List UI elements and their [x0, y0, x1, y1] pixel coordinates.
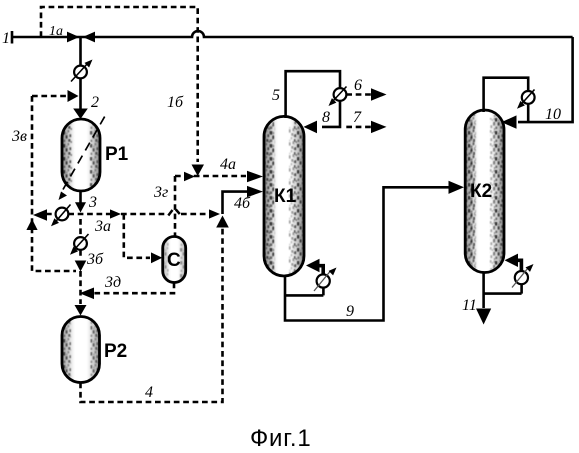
svg-text:4б: 4б: [234, 195, 251, 212]
arrow line 2 into P1: [73, 109, 88, 120]
svg-text:К2: К2: [470, 181, 492, 202]
arrow 4 up into 4б corner: [216, 216, 229, 228]
wire: 3в dashed vertical and corners: [32, 96, 76, 271]
arrow 3б down: [75, 261, 87, 272]
arrow reboiler return into K2: [505, 254, 519, 267]
svg-text:К1: К1: [274, 186, 297, 207]
heat exchanger E4 (condenser K1): [334, 88, 347, 101]
wire: 4б solid into K1: [223, 192, 248, 214]
wire: branch 1б dashed (up, across top, down to 4a junction): [41, 7, 198, 162]
svg-text:3а: 3а: [94, 218, 111, 235]
svg-text:3: 3: [88, 194, 97, 211]
svg-text:5: 5: [272, 87, 280, 104]
svg-text:2: 2: [91, 94, 99, 111]
svg-text:4а: 4а: [220, 156, 236, 173]
arrow 4a into K1: [247, 171, 263, 182]
small arrow on reboiler slash: [314, 272, 330, 292]
arrow down into P2: [75, 305, 87, 316]
svg-text:3г: 3г: [153, 184, 168, 201]
svg-text:7: 7: [353, 109, 362, 126]
svg-text:3б: 3б: [86, 251, 104, 268]
small arrow on K2 reboiler slash: [512, 268, 528, 288]
heat exchanger E1 on line 2: [74, 66, 87, 79]
wire: branch 3a to separator C: [124, 214, 150, 258]
arrow 3г/4a right before junction: [184, 172, 195, 181]
arrow 9 into K2: [449, 181, 465, 194]
svg-text:1: 1: [2, 30, 10, 47]
wire: line 3 from P1 bottom: [79, 191, 82, 203]
wire: K2 overhead + recycle 10 riser: [484, 37, 573, 122]
wire: line 4 dashed from P2 bottom up to 4б: [81, 228, 223, 402]
wire: 3б dashed vertical: [79, 219, 82, 259]
column K1: [264, 116, 304, 279]
svg-text:1б: 1б: [167, 94, 184, 111]
vessel P1: [62, 119, 100, 191]
svg-text:3д: 3д: [104, 274, 121, 291]
node: feed junction arrow from left (1a): [67, 32, 79, 43]
K2 reboiler loop: [484, 285, 522, 294]
svg-text:С: С: [167, 250, 181, 271]
arrow 3a left into 3в: [33, 209, 47, 221]
arrow 3 down: [75, 202, 86, 212]
heat exchanger E5 (condenser K2): [522, 91, 535, 104]
wire: into P2: [79, 271, 82, 304]
wire: 4a dashed into K1: [175, 175, 246, 178]
arrow 3a right into 4б junction: [209, 209, 220, 218]
arrow 4б into K1: [247, 186, 263, 197]
arrow into C: [151, 252, 162, 263]
wire: K2 bottoms line 11: [482, 272, 485, 308]
K1 reboiler loop: [285, 288, 323, 295]
heat exchanger E2 on 3a: [56, 208, 69, 221]
P1 diagonal dashed phase line with arrow: [63, 116, 105, 190]
svg-text:Р2: Р2: [104, 341, 127, 362]
svg-text:10: 10: [545, 106, 561, 123]
wire: 3г dashed vertical (crosses 3a, to C top): [174, 176, 177, 236]
arrow 3в into line 2: [68, 90, 79, 102]
wire: line 2 vertical from junction to P1: [79, 37, 82, 110]
arrow 3a mid right: [110, 209, 121, 218]
wire: main feed line 1 with hop over 1б: [12, 31, 573, 37]
arrow reboiler return into K1: [306, 259, 320, 272]
column K2: [465, 110, 504, 275]
wire: 3a dashed horizontal: [46, 213, 208, 216]
arrow reflux into K2: [502, 115, 517, 128]
vessel C: [163, 237, 186, 283]
wire: K1 overhead line 5: [286, 71, 340, 127]
feed inlet tick: [11, 31, 14, 44]
svg-text:4: 4: [145, 384, 153, 401]
svg-text:11: 11: [462, 297, 477, 314]
arrow 3д left: [80, 288, 95, 300]
svg-text:6: 6: [354, 77, 362, 94]
svg-text:3в: 3в: [11, 128, 27, 145]
stream 7 dashed out: [346, 126, 371, 129]
svg-text:8: 8: [322, 109, 330, 126]
heat exchanger E3 on 3б: [74, 237, 87, 250]
node: feed junction arrow from right (recycle): [83, 32, 95, 43]
svg-text:Р1: Р1: [105, 144, 129, 165]
arrow 1б down into 4a line: [192, 165, 205, 177]
svg-text:1а: 1а: [49, 24, 63, 39]
slant tick at 3г/3a crossing: [168, 210, 172, 216]
arrow reflux 8 into K1: [304, 121, 318, 134]
stream 6 dashed out: [346, 93, 371, 96]
svg-text:Фиг.1: Фиг.1: [250, 425, 312, 452]
wire: 3д from C bottom to P2 line: [94, 283, 174, 294]
svg-text:9: 9: [346, 303, 354, 320]
vessel P2: [62, 316, 100, 383]
wire: K1 bottoms line 9 to K2: [285, 187, 449, 320]
arrow 3в up (mid): [26, 219, 37, 230]
